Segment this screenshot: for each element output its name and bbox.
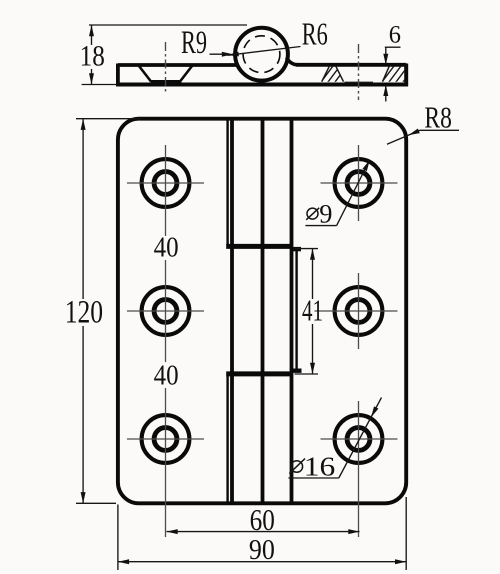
svg-text:41: 41 (302, 294, 323, 328)
svg-text:R9: R9 (181, 25, 207, 61)
svg-text:R6: R6 (302, 16, 328, 52)
svg-text:18: 18 (80, 40, 105, 73)
svg-text:40: 40 (154, 232, 179, 264)
svg-text:90: 90 (249, 534, 275, 566)
svg-text:6: 6 (389, 22, 401, 49)
svg-text:16: 16 (304, 451, 336, 482)
svg-text:9: 9 (319, 198, 332, 228)
svg-text:R8: R8 (424, 100, 452, 135)
svg-text:40: 40 (154, 359, 179, 391)
svg-text:120: 120 (65, 294, 103, 330)
svg-text:60: 60 (250, 502, 275, 537)
